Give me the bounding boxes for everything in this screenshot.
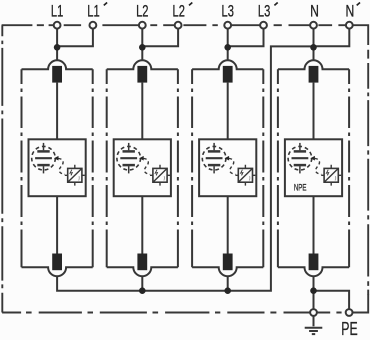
svg-text:N: N	[346, 1, 355, 20]
svg-text:L3: L3	[222, 1, 234, 20]
svg-text:NPE: NPE	[294, 181, 307, 192]
svg-text:L3: L3	[258, 1, 270, 20]
svg-text:L2: L2	[173, 1, 185, 20]
svg-text:N: N	[310, 1, 319, 20]
svg-text:L1: L1	[51, 1, 63, 20]
svg-text:L1: L1	[87, 1, 99, 20]
svg-text:PE: PE	[341, 318, 357, 339]
svg-text:L2: L2	[136, 1, 148, 20]
